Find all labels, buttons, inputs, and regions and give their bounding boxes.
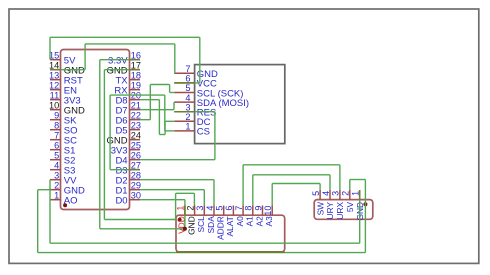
U2 pin 3 stub (174, 111, 194, 113)
U1 pin 9 stub (50, 119, 61, 121)
wire A1 net: ADS pin8 to U4 URY pin4 (252, 175, 254, 206)
svg-text:10: 10 (263, 206, 273, 216)
svg-text:2: 2 (185, 112, 190, 122)
svg-text:25: 25 (131, 140, 141, 150)
wire D2 net: U1 pin28 to ADS SDA pin4 (140, 179, 214, 181)
wire 5V net olive overlap on VCC stub (174, 82, 194, 84)
U1 pin 15 stub (50, 59, 61, 61)
U3 pin 4 stub (213, 206, 215, 216)
U1 pin 3 stub (50, 179, 61, 181)
svg-text:7: 7 (185, 64, 190, 74)
svg-text:26: 26 (131, 150, 141, 160)
wire CS-D3 olive overlap on pin27 stub (130, 169, 141, 171)
U1 pin 18 stub (130, 79, 141, 81)
svg-text:1: 1 (54, 190, 59, 200)
junction dot 3.3V-D0 tie (183, 227, 187, 231)
svg-text:5V: 5V (345, 201, 355, 212)
svg-text:4: 4 (185, 93, 190, 103)
svg-text:A2: A2 (254, 216, 264, 227)
wire GND olive overlap on pin14 stub (50, 69, 61, 71)
svg-text:23: 23 (131, 120, 141, 130)
wire GND olive overlap on pin17 stub (130, 69, 141, 71)
svg-text:3: 3 (331, 191, 341, 196)
svg-text:2: 2 (341, 191, 351, 196)
U1 pin 7 stub (50, 139, 61, 141)
wire D6 net: U1 pin22 to U2 SCL (140, 119, 150, 121)
svg-text:4: 4 (205, 206, 215, 211)
svg-text:7: 7 (234, 206, 244, 211)
U1 pin 20 stub (130, 99, 141, 101)
wire D7 net: U1 pin21 to U2 SDA (140, 109, 174, 111)
svg-text:18: 18 (131, 70, 141, 80)
wire GND net: U1 pin17 down to ADS GND (104, 69, 140, 71)
svg-text:7: 7 (54, 130, 59, 140)
svg-text:3: 3 (195, 206, 205, 211)
module U4 pin-1 marker dot (363, 202, 367, 206)
wire CS-D3 net: U2 CS bridge to U1 pin27 (165, 130, 175, 132)
svg-text:22: 22 (131, 110, 141, 120)
svg-text:3: 3 (54, 170, 59, 180)
U1 pin 13 stub (50, 79, 61, 81)
svg-text:12: 12 (49, 80, 59, 90)
U1 pin 27 stub (130, 169, 141, 171)
U4 pin 1 stub (359, 190, 361, 200)
svg-text:13: 13 (49, 70, 59, 80)
U3 pin 3 stub (203, 206, 205, 216)
svg-text:ADDR: ADDR (216, 216, 226, 240)
U3 pin 2 stub (194, 206, 196, 216)
U2 pin 1 stub (174, 130, 194, 132)
U1 pin 24 stub (130, 139, 141, 141)
svg-text:2: 2 (54, 180, 59, 190)
U1 pin 22 stub (130, 119, 141, 121)
module U4 body (314, 200, 373, 220)
svg-text:9: 9 (54, 110, 59, 120)
svg-text:2: 2 (185, 206, 195, 211)
svg-text:6: 6 (224, 206, 234, 211)
U3 pin 6 stub (232, 206, 234, 216)
U1 pin 17 stub (130, 69, 141, 71)
svg-text:4: 4 (54, 160, 59, 170)
svg-text:17: 17 (131, 60, 141, 70)
wire RES-D4 net: U2 RES down to U1 pin26 (174, 111, 215, 113)
U2 pin 5 stub (174, 92, 194, 94)
U4 pin 2 stub (349, 190, 351, 200)
wire A0 net: ADS pin7 to U4 URX pin3 (242, 165, 244, 206)
U2 pin 2 stub (174, 120, 194, 122)
svg-text:5: 5 (311, 191, 321, 196)
svg-text:28: 28 (131, 170, 141, 180)
U3 pin 9 stub (262, 206, 264, 216)
svg-text:24: 24 (131, 130, 141, 140)
svg-text:8: 8 (54, 120, 59, 130)
wire GND rail olive overlap on U3 bottom edge (176, 251, 285, 253)
U1 pin 8 stub (50, 129, 61, 131)
U1 pin 11 stub (50, 99, 61, 101)
U1 pin 30 stub (130, 199, 141, 201)
U1 pin 10 stub (50, 109, 61, 111)
U1 pin 19 stub (130, 89, 141, 91)
module U3 body (176, 215, 285, 252)
svg-text:SCL: SCL (196, 216, 206, 233)
svg-text:16: 16 (131, 50, 141, 60)
U4 pin 5 stub (319, 190, 321, 200)
svg-text:GND: GND (186, 216, 196, 235)
U3 pin 8 stub (252, 206, 254, 216)
svg-text:9: 9 (253, 206, 263, 211)
U3 pin 5 stub (223, 206, 225, 216)
U1 pin 4 stub (50, 169, 61, 171)
svg-text:27: 27 (131, 160, 141, 170)
module U3 pin-1 marker dot (178, 218, 182, 222)
wire GND net rail: U1 pin2 up-over to U4 5V pin2 (38, 189, 50, 191)
U3 pin 7 stub (242, 206, 244, 216)
U1 pin 14 stub (50, 69, 61, 71)
svg-text:19: 19 (131, 80, 141, 90)
svg-text:11: 11 (50, 90, 60, 100)
U1 pin 29 stub (130, 189, 141, 191)
svg-text:SW: SW (315, 202, 325, 216)
wire D0 net: U1 pin30 to ADS VDD (140, 199, 185, 201)
svg-text:10: 10 (49, 100, 59, 110)
U1 pin 23 stub (130, 129, 141, 131)
wire A3 net: ADS pin10 to U4 SW pin5 (271, 184, 273, 206)
U1 pin 12 stub (50, 89, 61, 91)
U1 pin 26 stub (130, 159, 141, 161)
svg-text:3: 3 (185, 102, 190, 112)
svg-text:AO: AO (64, 196, 78, 207)
module U1 pin-1 marker dot (63, 203, 67, 207)
svg-text:5: 5 (215, 206, 225, 211)
svg-text:14: 14 (49, 60, 59, 70)
module U2 OLED body (195, 65, 285, 144)
U1 pin 25 stub (130, 149, 141, 151)
svg-text:6: 6 (185, 74, 190, 84)
svg-text:1: 1 (185, 122, 190, 132)
svg-text:8: 8 (244, 206, 254, 211)
wire D8 net: U1 pin20 to U2 DC (140, 99, 159, 101)
svg-text:30: 30 (131, 190, 141, 200)
U1 pin 28 stub (130, 179, 141, 181)
U1 pin 16 stub (130, 59, 141, 61)
U4 pin 4 stub (329, 190, 331, 200)
U2 pin 7 stub (174, 72, 194, 74)
U2 pin 6 stub (174, 82, 194, 84)
svg-text:A0: A0 (235, 216, 245, 227)
U3 pin 1 stub (184, 206, 186, 216)
U4 pin 3 stub (339, 190, 341, 200)
svg-text:A1: A1 (245, 216, 255, 227)
module U1 body (61, 50, 130, 210)
U1 pin 1 stub (50, 199, 61, 201)
svg-text:SDA: SDA (206, 216, 216, 234)
svg-text:21: 21 (131, 100, 141, 110)
U1 pin 5 stub (50, 159, 61, 161)
U1 pin 21 stub (130, 109, 141, 111)
svg-text:URY: URY (325, 201, 335, 219)
U3 pin 10 stub (271, 206, 273, 216)
svg-text:6: 6 (54, 140, 59, 150)
svg-text:CS: CS (197, 127, 210, 138)
svg-text:D0: D0 (115, 196, 127, 207)
wire D1 net: U1 pin29 to ADS SCL pin3 (140, 189, 204, 191)
svg-text:5: 5 (54, 150, 59, 160)
wire 3.3V net: U1 pin16 wire down-right (100, 59, 140, 61)
U1 pin 2 stub (50, 189, 61, 191)
wire GND net: U1 pin14 to U2 GND (50, 69, 85, 71)
wire VV olive overlap on U4 GND stub (359, 190, 361, 200)
svg-text:A3: A3 (264, 216, 274, 227)
wire VV net rail: U1 pin3 to U4 GND pin1 (49, 180, 51, 244)
U2 pin 4 stub (174, 101, 194, 103)
svg-text:URX: URX (335, 201, 345, 219)
svg-text:29: 29 (131, 180, 141, 190)
wire D0 olive overlap on U3 VDD stub (184, 206, 186, 216)
wire 3.3V olive overlap on pin16 stub (130, 59, 141, 61)
wire RES olive overlap on RES stub (174, 111, 194, 113)
U1 pin 6 stub (50, 149, 61, 151)
svg-text:4: 4 (321, 191, 331, 196)
wire 5V net: U1 pin15 up-over to U2 VCC (49, 37, 51, 59)
svg-text:5: 5 (185, 83, 190, 93)
svg-text:ALAT: ALAT (225, 216, 235, 236)
